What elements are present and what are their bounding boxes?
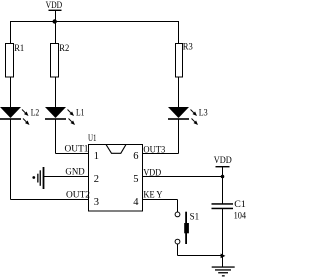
LED L1 — [45, 107, 85, 125]
svg-text:R2: R2 — [59, 43, 69, 53]
ground — [212, 266, 235, 276]
junction dot at VDD bus — [53, 19, 57, 23]
svg-text:L3: L3 — [199, 108, 208, 118]
svg-text:GND: GND — [65, 167, 85, 177]
wire GND to pin 2 — [44, 176, 89, 178]
svg-text:R1: R1 — [14, 43, 24, 53]
resistor R3 — [176, 42, 194, 78]
svg-text:6: 6 — [133, 151, 138, 162]
wire bus to R1 — [10, 21, 12, 44]
switch S1 — [175, 212, 199, 245]
svg-text:KE Y: KE Y — [143, 190, 162, 200]
wire top bus — [10, 21, 179, 23]
wire VDD node to capacitor C1 — [222, 177, 224, 205]
wire LED L2 to pin 3 (OUT2) — [11, 120, 89, 200]
wire switch S1 to ground node — [178, 244, 223, 256]
wire R1 to LED L2 — [10, 77, 12, 108]
resistor R1 — [6, 43, 25, 77]
wire R3 to LED L3 — [178, 77, 180, 108]
svg-text:L2: L2 — [31, 108, 40, 118]
svg-text:2: 2 — [94, 174, 99, 185]
svg-text:OUT2: OUT2 — [66, 190, 90, 200]
wire R2 to LED L1 — [55, 77, 57, 108]
svg-text:VDD: VDD — [46, 0, 63, 10]
svg-text:1: 1 — [94, 151, 99, 162]
svg-text:5: 5 — [133, 174, 138, 185]
wire bus to R2 — [55, 21, 57, 44]
svg-text:VDD: VDD — [214, 155, 232, 165]
svg-text:R3: R3 — [183, 42, 193, 52]
wire LED L1 to pin 1 (OUT1) — [56, 120, 89, 154]
junction arrow at ground node — [221, 254, 226, 259]
svg-text:3: 3 — [94, 197, 99, 208]
svg-text:4: 4 — [133, 197, 139, 208]
svg-text:U1: U1 — [88, 133, 97, 143]
wire bus to R3 — [178, 21, 180, 44]
svg-text:C1: C1 — [234, 199, 246, 209]
svg-text:S1: S1 — [190, 212, 200, 222]
power symbol VDD (right) — [214, 155, 232, 177]
LED L3 — [168, 107, 208, 125]
svg-text:104: 104 — [234, 211, 247, 221]
capacitor C1 — [212, 199, 247, 221]
power symbol VDD (top) — [46, 0, 63, 21]
wire LED L3 to pin 6 (OUT3) — [143, 120, 179, 154]
svg-text:OUT3: OUT3 — [143, 145, 165, 155]
resistor R2 — [51, 43, 70, 77]
IC U1 — [88, 133, 143, 211]
wire capacitor C1 to ground — [222, 209, 224, 267]
signal ground (pin 2) — [32, 167, 44, 189]
LED L2 — [0, 107, 39, 125]
wire pin 5 to VDD node — [143, 176, 223, 178]
svg-text:L1: L1 — [76, 108, 85, 118]
junction dot at VDD node — [221, 175, 225, 179]
wire pin 4 (KEY) to switch S1 — [143, 200, 178, 213]
svg-text:OUT1: OUT1 — [65, 144, 89, 154]
